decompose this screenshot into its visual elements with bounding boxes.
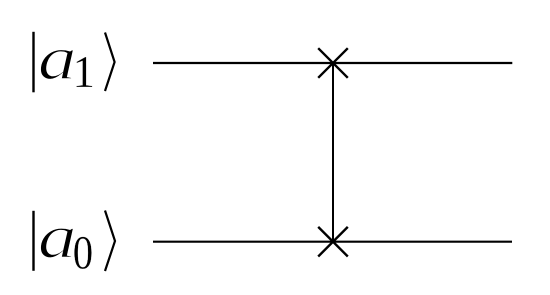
ket bar | [32, 32, 34, 93]
svg-text:0: 0 [73, 225, 93, 279]
SWAP cross X2 on bottom wire [318, 227, 348, 257]
node label ket |a1> [34, 24, 115, 97]
svg-text:a: a [38, 24, 77, 93]
svg-text:a: a [38, 203, 77, 272]
wire: SWAP vertical connector [332, 63, 334, 242]
qubit wire a1 (top) [153, 62, 512, 64]
qubit wire a0 (bottom) [153, 241, 512, 243]
svg-text:1: 1 [73, 47, 96, 97]
SWAP cross X1 on top wire [318, 48, 348, 78]
ket angle bracket [105, 33, 115, 92]
ket angle bracket [105, 211, 115, 272]
node label ket |a0> [34, 203, 116, 279]
ket bar | [32, 211, 34, 271]
